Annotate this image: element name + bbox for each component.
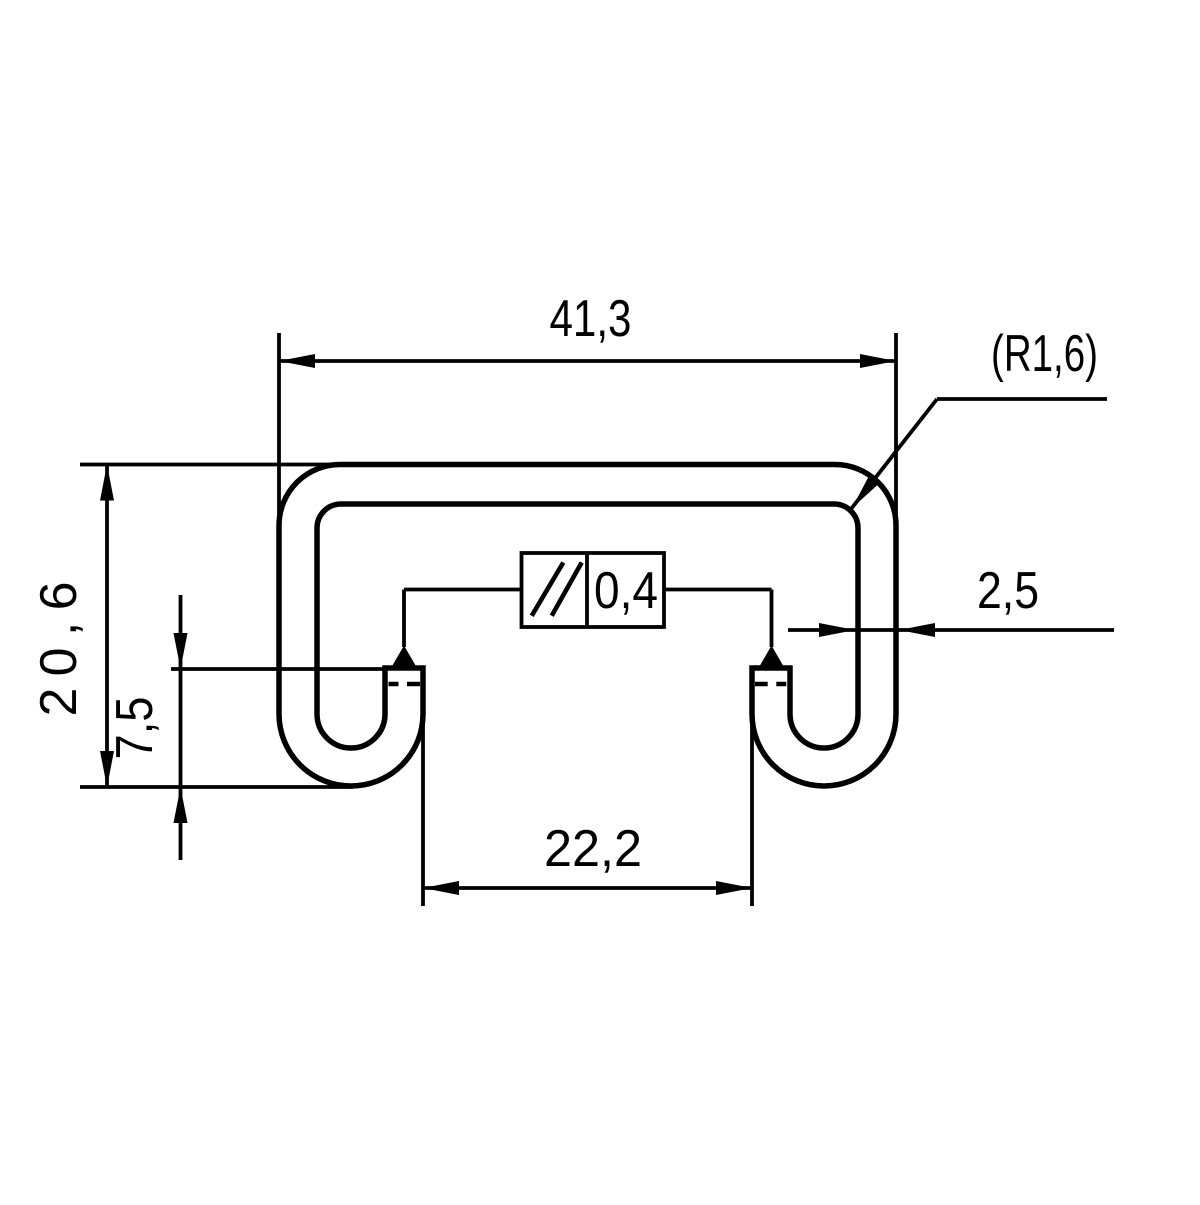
dimension 41,3 extension line right xyxy=(894,333,898,530)
svg-text:41,3: 41,3 xyxy=(550,290,632,348)
hidden bend line right lip (dashed) xyxy=(755,682,786,687)
parallelism symbol slash 1 xyxy=(532,563,564,616)
dimension 7,5 arrow lower (pointing up) xyxy=(174,787,188,823)
fcf leader left vertical xyxy=(402,590,406,648)
radius callout leader shoulder xyxy=(937,397,1107,401)
dimension 20,6 extension line top xyxy=(80,463,344,467)
hidden bend line left lip (dashed) xyxy=(389,682,421,687)
feature control frame divider xyxy=(585,553,589,627)
dimension 20,6 arrow bottom xyxy=(100,751,114,787)
dimension 20,6 extension line bottom xyxy=(80,785,353,789)
dimension 41,3 arrow right xyxy=(860,354,896,368)
radius callout arrow xyxy=(852,474,880,508)
fcf leader left arrow (on left lip) xyxy=(391,646,417,669)
dimension 22,2 extension line right xyxy=(750,700,754,906)
dimension 41,3 line xyxy=(279,359,896,363)
dimension 41,3 extension line left xyxy=(277,333,281,535)
svg-text:20,6: 20,6 xyxy=(30,582,88,717)
dimension 20,6 arrow top xyxy=(100,465,114,501)
fcf leader left horizontal xyxy=(404,588,522,592)
svg-text:(R1,6): (R1,6) xyxy=(991,325,1098,383)
dimension 22,2 arrow left xyxy=(423,881,459,895)
dimension 2,5 arrow right (pointing left) xyxy=(899,623,935,637)
dimension 22,2 line xyxy=(423,886,752,890)
svg-text:22,2: 22,2 xyxy=(544,820,642,878)
svg-text:0,4: 0,4 xyxy=(594,562,658,620)
feature control frame box xyxy=(522,553,665,627)
dimension 20,6 line xyxy=(105,465,109,788)
parallelism symbol slash 2 xyxy=(552,563,582,616)
fcf leader right vertical xyxy=(770,590,774,648)
fcf leader right horizontal xyxy=(664,588,772,592)
dimension 7,5 extension line at lip top xyxy=(171,667,387,671)
dimension 2,5 arrow left (pointing right) xyxy=(819,623,855,637)
dimension 2,5 left tail xyxy=(788,628,1114,632)
dimension 41,3 arrow left xyxy=(279,354,315,368)
fcf leader right arrow (on right lip) xyxy=(759,646,785,669)
dimension 22,2 arrow right xyxy=(716,881,752,895)
dimension 22,2 extension line left xyxy=(421,700,425,906)
radius callout leader diagonal xyxy=(851,399,937,509)
dimension 7,5 line upper part xyxy=(179,595,183,860)
svg-text:7,5: 7,5 xyxy=(106,697,164,760)
svg-text:2,5: 2,5 xyxy=(977,562,1039,620)
dimension 7,5 arrow upper (pointing down) xyxy=(174,633,188,669)
channel profile outline xyxy=(279,465,896,787)
